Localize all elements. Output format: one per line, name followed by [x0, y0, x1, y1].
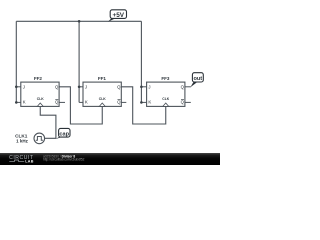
svg-text:out: out — [193, 76, 202, 82]
node dot FF3 K — [140, 101, 143, 104]
flip-flop FF2 box — [21, 76, 59, 107]
node dot FF3 J — [140, 86, 143, 89]
wire FF1 K stub — [79, 101, 83, 103]
svg-text:J: J — [148, 85, 150, 90]
svg-text:CLK: CLK — [37, 97, 45, 101]
node dot FF1 J — [78, 86, 81, 89]
svg-text:J: J — [23, 85, 25, 90]
svg-text:FF3: FF3 — [161, 76, 170, 81]
svg-text:FF1: FF1 — [98, 76, 107, 81]
wire FF3 Qbar stub — [185, 101, 191, 103]
svg-text:CLK: CLK — [99, 97, 107, 101]
node dot FF2 J — [15, 86, 18, 89]
wire FF3 K stub — [141, 101, 146, 103]
wire FF2 supply vertical — [15, 21, 17, 102]
wire FF1 Qbar stub — [122, 101, 127, 103]
wire FF3 Q stub to out — [185, 86, 191, 88]
wire FF3 supply vertical — [140, 21, 142, 102]
svg-text:+5V: +5V — [113, 12, 125, 19]
wire FF1 Q to FF3 CLK — [122, 87, 166, 124]
flip-flop FF3 box — [147, 76, 185, 107]
svg-text:K: K — [148, 100, 151, 105]
wire FF1 supply vertical — [78, 21, 80, 102]
svg-text:K: K — [23, 100, 26, 105]
voltage source CLK1 — [15, 133, 44, 144]
svg-text:CLK: CLK — [162, 97, 170, 101]
flag out — [190, 73, 203, 88]
svg-text:J: J — [85, 85, 87, 90]
wire top +5V rail — [16, 20, 141, 22]
flip-flop FF1 box — [83, 76, 121, 107]
wire CLK1 to FF2 CLK — [40, 107, 56, 139]
wire FF3 J stub — [141, 86, 146, 88]
wire FF1 J stub — [79, 86, 83, 88]
node dot FF2 K — [15, 101, 18, 104]
svg-text:cap: cap — [59, 131, 69, 137]
svg-text:LAB: LAB — [25, 160, 34, 164]
wire FF2 K stub — [16, 101, 21, 103]
flag cap — [56, 128, 70, 139]
svg-text:K: K — [85, 100, 88, 105]
node dot top rail / FF1 supply — [78, 20, 81, 23]
flag +5V — [108, 10, 127, 22]
wire FF2 Q to FF1 CLK — [60, 87, 103, 124]
wire FF2 J stub — [16, 86, 21, 88]
svg-text:FF2: FF2 — [34, 76, 43, 81]
watermark bar — [0, 153, 220, 165]
svg-text:http://circuitlab.com/c6ubdf52: http://circuitlab.com/c6ubdf52 — [43, 158, 85, 162]
svg-text:1 kHz: 1 kHz — [16, 139, 29, 144]
wire FF2 Qbar stub — [60, 101, 66, 103]
